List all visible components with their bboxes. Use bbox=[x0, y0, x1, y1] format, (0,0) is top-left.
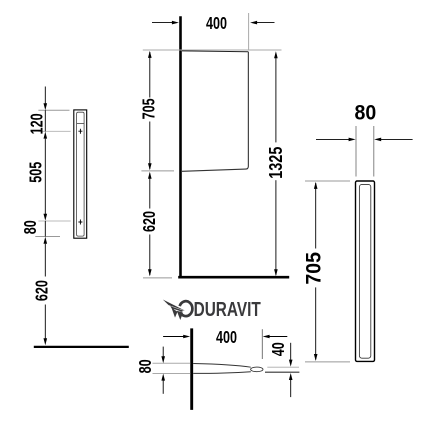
svg-text:620: 620 bbox=[140, 211, 160, 232]
ext 80 right right line bbox=[373, 126, 375, 177]
ext 40 plan bottom bbox=[265, 371, 299, 373]
dimension 1325: line bbox=[275, 54, 277, 143]
blade tip capsule bbox=[251, 367, 263, 372]
ext 80 plan top bbox=[153, 362, 191, 364]
left chain tick y=131.4 bbox=[38, 130, 70, 132]
svg-text:705: 705 bbox=[303, 252, 326, 285]
svg-text:80: 80 bbox=[355, 102, 377, 125]
logo ring bbox=[180, 301, 193, 316]
left chain tick y=110.2 bbox=[38, 109, 69, 111]
dimension 40 plan: bottom stem and arrow bbox=[290, 380, 292, 398]
dimension 620 front: down arrow bbox=[148, 269, 152, 276]
panel right edge bbox=[182, 52, 248, 172]
dimension 400 top: left stem and arrow bbox=[152, 22, 172, 24]
svg-text:400: 400 bbox=[216, 328, 237, 348]
right view ext bottom bbox=[305, 361, 350, 363]
dimension 80 right: right stem and arrow bbox=[381, 138, 413, 140]
dimension 400 plan: left stem and arrow bbox=[163, 336, 183, 338]
dimension 80 plan: bottom stem and arrow bbox=[162, 380, 164, 394]
dimension 1325: up arrow bbox=[274, 51, 278, 58]
dimension 705 front: up arrow bbox=[148, 51, 152, 58]
panel top edge bbox=[182, 50, 248, 53]
svg-text:1325: 1325 bbox=[265, 147, 286, 179]
wall line plan view bbox=[190, 328, 193, 410]
svg-text:400: 400 bbox=[206, 14, 227, 34]
screw mark 1 bbox=[78, 129, 82, 134]
svg-text:705: 705 bbox=[140, 98, 160, 119]
dimension 400 top: right stem and arrow bbox=[257, 22, 275, 24]
ext 400 plan right bbox=[261, 329, 263, 359]
floor line front view bbox=[178, 276, 289, 279]
left chain tick y=236.5 bbox=[35, 236, 60, 238]
dimension 80 plan: top stem and arrow bbox=[162, 347, 164, 357]
dimension 40 plan: top stem and arrow bbox=[290, 343, 292, 360]
right view ext top bbox=[305, 180, 350, 182]
left view inner rect bbox=[77, 112, 85, 236]
left chain tick y=221 bbox=[38, 220, 70, 222]
dimension 620 front: line bbox=[149, 174, 151, 209]
dimension 705 right: up arrow bbox=[314, 182, 318, 189]
svg-text:505: 505 bbox=[27, 161, 47, 182]
extension line mid (y=170.9) bbox=[141, 170, 174, 172]
left view divider line bbox=[77, 123, 85, 125]
dimension 705 right: down arrow bbox=[314, 354, 318, 361]
svg-text:40: 40 bbox=[269, 342, 289, 356]
ext 80 plan bottom bbox=[153, 373, 191, 375]
svg-text:120: 120 bbox=[28, 113, 48, 134]
dimension 705 front: down arrow bbox=[148, 163, 152, 170]
blade top edge bbox=[193, 364, 251, 368]
svg-text:DURAVIT: DURAVIT bbox=[194, 298, 261, 321]
right view outer rect bbox=[356, 181, 375, 361]
dimension 705 right: line bbox=[315, 183, 317, 249]
extension line floor left stub bbox=[143, 277, 172, 279]
svg-text:80: 80 bbox=[21, 220, 41, 234]
ext 40 plan top bbox=[267, 366, 299, 368]
extension line 400 right (x=248.6) bbox=[248, 13, 250, 51]
blade bottom edge bbox=[193, 372, 251, 374]
dimension 1325: down arrow bbox=[274, 269, 278, 276]
dimension 400 plan: right stem and arrow bbox=[269, 336, 287, 338]
left chain dim line segments bbox=[44, 87, 46, 104]
left view outer rect bbox=[74, 110, 87, 238]
dimension 80 right: left stem and arrow bbox=[316, 138, 349, 140]
extension line top (y=50) bbox=[143, 49, 282, 51]
logo bird mark bbox=[163, 300, 185, 321]
svg-text:620: 620 bbox=[33, 280, 53, 301]
svg-text:80: 80 bbox=[136, 359, 156, 373]
screw mark 2 bbox=[78, 220, 82, 225]
dimension 620 front: up arrow bbox=[148, 172, 152, 179]
wall line front view bbox=[179, 16, 182, 278]
right view inner rect bbox=[359, 184, 370, 358]
ext 80 right left line bbox=[355, 126, 357, 177]
dimension 705 front: line bbox=[149, 52, 151, 98]
floor line bottom left bbox=[34, 346, 129, 348]
